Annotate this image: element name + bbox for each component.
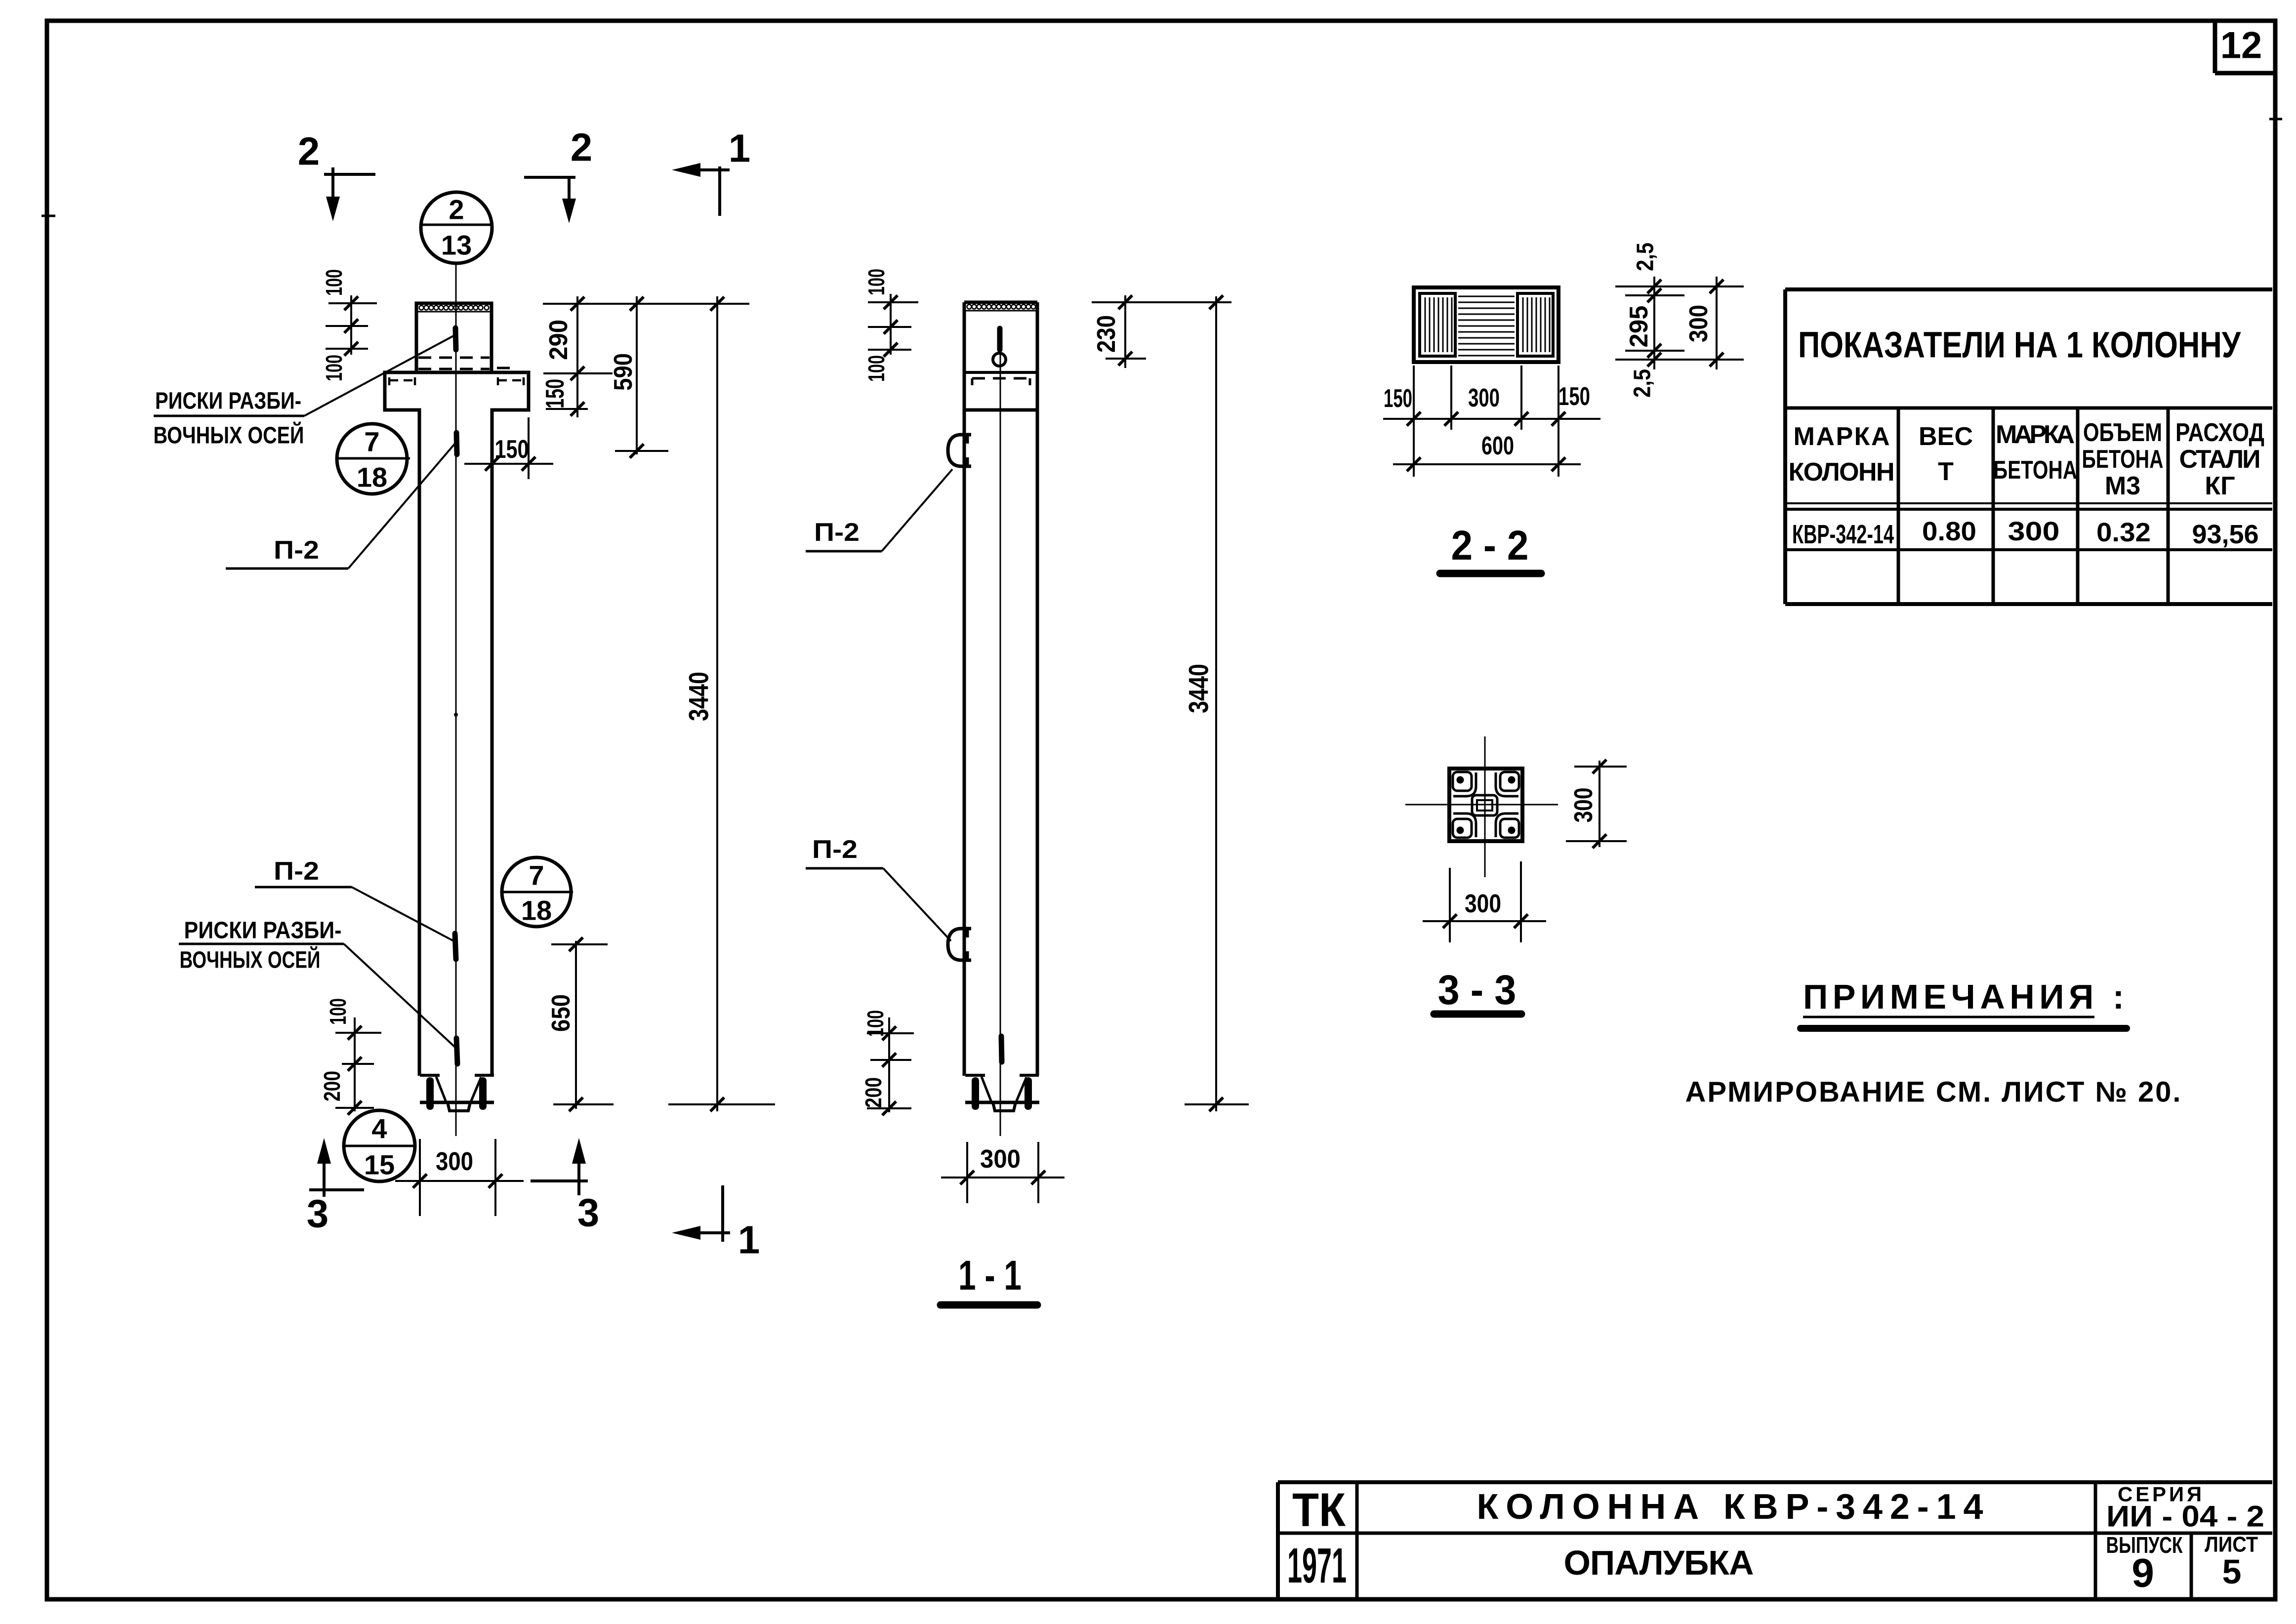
section mark 2 (left) bbox=[298, 129, 375, 222]
table header ВЕС Т bbox=[1919, 422, 1973, 486]
svg-text:650: 650 bbox=[547, 994, 575, 1032]
caption 2-2 bbox=[1440, 522, 1541, 573]
column 1 dim chain 100/100 top left bbox=[321, 269, 377, 381]
svg-text:12: 12 bbox=[2220, 25, 2262, 67]
leader label riski bottom bbox=[179, 918, 455, 1048]
section 3-3 corner anchor TL bbox=[1453, 772, 1476, 796]
caption 3-3 bbox=[1434, 967, 1521, 1014]
column 2 dim 300 bottom bbox=[941, 1142, 1065, 1203]
section 2-2 right block vertical hatch bbox=[1523, 297, 1550, 352]
svg-text:КГ: КГ bbox=[2205, 472, 2235, 500]
column 1 dim 300 bottom bbox=[395, 1139, 524, 1216]
column 2 leader label P-2 upper bbox=[806, 469, 952, 551]
section 3-3 corner anchor BR bbox=[1496, 813, 1519, 838]
section mark 2 (right) bbox=[524, 125, 592, 224]
svg-text:П-2: П-2 bbox=[274, 857, 319, 886]
column 1 top extension line right bbox=[543, 303, 749, 305]
table ПОКАЗАТЕЛИ НА 1 КОЛОННУ bbox=[1785, 289, 2272, 604]
caption 1-1 bbox=[941, 1252, 1037, 1305]
column 2 leader label P-2 lower bbox=[806, 835, 951, 941]
column 2 console level lines bbox=[964, 371, 1037, 374]
svg-text:РИСКИ РАЗБИ-: РИСКИ РАЗБИ- bbox=[155, 388, 301, 414]
section mark 1 (top) bbox=[672, 126, 750, 216]
svg-text:ПРИМЕЧАНИЯ :: ПРИМЕЧАНИЯ : bbox=[1803, 977, 2124, 1016]
column 1 console outline bbox=[385, 372, 529, 1076]
column 1 hat dotted strip bbox=[419, 306, 489, 310]
svg-text:ТК: ТК bbox=[1292, 1484, 1346, 1537]
section 3-3 corner anchor BL bbox=[1453, 813, 1476, 838]
svg-text:4: 4 bbox=[371, 1113, 387, 1144]
section 2-2 dim 600 bbox=[1393, 432, 1581, 471]
svg-text:ВЕС: ВЕС bbox=[1919, 422, 1973, 451]
svg-text:СТАЛИ: СТАЛИ bbox=[2179, 445, 2261, 474]
section 3-3 dim 300 bottom bbox=[1423, 861, 1546, 942]
svg-text:93,56: 93,56 bbox=[2192, 520, 2259, 549]
column 2 dotted strip bbox=[965, 305, 1036, 311]
svg-text:18: 18 bbox=[357, 462, 387, 493]
section 3-3 corner anchor TR bbox=[1496, 772, 1519, 796]
column 1 dim 590 bbox=[609, 296, 668, 458]
svg-text:18: 18 bbox=[521, 895, 552, 926]
column 1 riska mark in hat bbox=[455, 328, 456, 350]
svg-text:3: 3 bbox=[577, 1191, 600, 1235]
column 1 console dashed notch left bbox=[389, 377, 415, 385]
svg-text:ОБЪЕМ: ОБЪЕМ bbox=[2083, 418, 2162, 447]
marker circle 4/15 bbox=[344, 1110, 416, 1181]
svg-text:2: 2 bbox=[298, 129, 320, 173]
table header ОБЪЕМ БЕТОНА М3 bbox=[2082, 418, 2164, 500]
column 2 lifting loop circle bbox=[993, 353, 1006, 366]
svg-text:2: 2 bbox=[571, 125, 593, 169]
notes heading ПРИМЕЧАНИЯ bbox=[1801, 977, 2127, 1028]
column 1 bottom tip bbox=[420, 1075, 494, 1111]
section 2-2 dim 150/300/150 bbox=[1383, 365, 1600, 477]
svg-text:БЕТОНА: БЕТОНА bbox=[2082, 445, 2164, 474]
svg-text:2,5: 2,5 bbox=[1630, 369, 1656, 398]
svg-text:0.80: 0.80 bbox=[1922, 517, 1976, 546]
svg-text:1: 1 bbox=[729, 126, 751, 170]
section 2-2 dim 300 right bbox=[1684, 277, 1723, 369]
svg-text:КОЛОНН: КОЛОНН bbox=[1789, 458, 1895, 487]
svg-text:5: 5 bbox=[2222, 1552, 2242, 1591]
svg-text:7: 7 bbox=[529, 860, 544, 891]
table data row bbox=[1792, 517, 2259, 549]
svg-text:2: 2 bbox=[449, 194, 464, 225]
svg-text:КОЛОННА КВР-342-14: КОЛОННА КВР-342-14 bbox=[1477, 1487, 1983, 1527]
column 2 hidden dashed line bbox=[972, 378, 1030, 385]
svg-text:290: 290 bbox=[544, 320, 573, 360]
svg-text:БЕТОНА: БЕТОНА bbox=[1993, 456, 2077, 485]
column 2 top extension line right bbox=[1092, 301, 1231, 303]
table header РАСХОД СТАЛИ КГ bbox=[2175, 418, 2264, 500]
svg-text:100: 100 bbox=[863, 269, 889, 295]
column 2 dim 3440 bbox=[1183, 295, 1249, 1111]
svg-text:МАРКА: МАРКА bbox=[1996, 420, 2075, 449]
column 2 riska mark top bbox=[997, 328, 1003, 350]
svg-text:АРМИРОВАНИЕ СМ. ЛИСТ № 20.: АРМИРОВАНИЕ СМ. ЛИСТ № 20. bbox=[1685, 1076, 2181, 1108]
leader label P-2 top left bbox=[226, 444, 455, 568]
svg-text:3440: 3440 bbox=[1183, 664, 1214, 713]
svg-text:7: 7 bbox=[364, 426, 379, 457]
svg-text:ПОКАЗАТЕЛИ НА 1 КОЛОННУ: ПОКАЗАТЕЛИ НА 1 КОЛОННУ bbox=[1798, 325, 2241, 365]
svg-text:РАСХОД: РАСХОД bbox=[2175, 418, 2264, 447]
column 1 dim 3440 bbox=[668, 296, 775, 1111]
svg-text:100: 100 bbox=[321, 269, 347, 296]
leader label riski top bbox=[154, 336, 454, 449]
section 2-2 left block vertical hatch bbox=[1425, 297, 1452, 352]
svg-text:РИСКИ РАЗБИ-: РИСКИ РАЗБИ- bbox=[184, 918, 342, 944]
svg-text:150: 150 bbox=[1384, 384, 1412, 413]
column 1 dim 650 bbox=[547, 937, 614, 1111]
column 2 outline bbox=[964, 302, 1037, 1076]
svg-text:ВОЧНЫХ ОСЕЙ: ВОЧНЫХ ОСЕЙ bbox=[180, 946, 321, 974]
column 1 dim chain 290/150 bbox=[541, 296, 613, 417]
column 1 riska marks on shaft bbox=[456, 433, 457, 454]
svg-text:3 - 3: 3 - 3 bbox=[1438, 967, 1517, 1013]
column 1 hat outline bbox=[416, 303, 492, 372]
column 2 dim 230 bbox=[1092, 295, 1146, 368]
section 2-2 middle horizontal hatch bbox=[1458, 296, 1515, 356]
column 2 bottom tip bbox=[965, 1075, 1039, 1111]
column 2 hook P-2 upper bbox=[948, 435, 971, 466]
svg-text:150: 150 bbox=[495, 435, 529, 464]
leader label P-2 bottom left bbox=[255, 857, 454, 941]
column 2 axis line bbox=[1000, 326, 1001, 1136]
column 1 dim chain 100/200 bottom left bbox=[319, 998, 381, 1115]
svg-text:300: 300 bbox=[980, 1145, 1021, 1174]
marker circle 7/18 upper bbox=[337, 424, 410, 494]
page number box bbox=[2215, 21, 2275, 73]
svg-text:300: 300 bbox=[2008, 517, 2060, 546]
svg-text:100: 100 bbox=[321, 355, 347, 381]
svg-text:2 - 2: 2 - 2 bbox=[1451, 522, 1529, 568]
section mark 1 (bottom) bbox=[672, 1185, 760, 1262]
svg-text:300: 300 bbox=[1465, 890, 1501, 918]
svg-text:100: 100 bbox=[325, 998, 351, 1025]
svg-text:1 - 1: 1 - 1 bbox=[958, 1252, 1022, 1299]
svg-text:П-2: П-2 bbox=[274, 536, 319, 565]
column 1 hidden dashed lines in hat bbox=[418, 358, 510, 369]
marker circle 7/18 lower bbox=[502, 857, 573, 927]
column 1 axis line bbox=[455, 263, 457, 1136]
table header МАРКА БЕТОНА bbox=[1993, 420, 2077, 485]
svg-text:ОПАЛУБКА: ОПАЛУБКА bbox=[1564, 1543, 1754, 1582]
svg-text:П-2: П-2 bbox=[812, 835, 858, 864]
svg-text:1971: 1971 bbox=[1287, 1538, 1347, 1593]
section 3-3 center box bbox=[1472, 795, 1497, 815]
svg-text:2,5: 2,5 bbox=[1633, 243, 1659, 271]
svg-text:1: 1 bbox=[738, 1218, 760, 1262]
svg-text:ВОЧНЫХ ОСЕЙ: ВОЧНЫХ ОСЕЙ bbox=[154, 422, 304, 449]
table header МАРКА КОЛОНН bbox=[1789, 422, 1895, 487]
svg-text:КВР-342-14: КВР-342-14 bbox=[1792, 520, 1894, 549]
section 2-2 dim 2.5/295/2.5 bbox=[1615, 243, 1744, 398]
section 3-3 body bbox=[1405, 736, 1558, 877]
svg-text:150: 150 bbox=[541, 379, 570, 408]
svg-text:300: 300 bbox=[1569, 788, 1598, 823]
column 1 dim 150 under console bbox=[464, 417, 553, 479]
svg-text:200: 200 bbox=[319, 1071, 345, 1101]
svg-text:13: 13 bbox=[441, 230, 472, 261]
svg-text:0.32: 0.32 bbox=[2096, 518, 2151, 547]
svg-text:300: 300 bbox=[1684, 305, 1713, 342]
svg-text:Т: Т bbox=[1938, 457, 1954, 486]
svg-text:295: 295 bbox=[1625, 306, 1653, 348]
fold mark left border bbox=[41, 215, 55, 217]
svg-text:100: 100 bbox=[863, 355, 889, 382]
svg-text:ИИ - 04 - 2: ИИ - 04 - 2 bbox=[2106, 1500, 2264, 1533]
svg-text:200: 200 bbox=[861, 1077, 886, 1108]
svg-text:300: 300 bbox=[1468, 384, 1500, 412]
section mark 3 (right) bbox=[531, 1138, 599, 1235]
svg-text:М3: М3 bbox=[2105, 472, 2140, 500]
svg-text:230: 230 bbox=[1092, 315, 1121, 353]
svg-text:3: 3 bbox=[307, 1192, 329, 1236]
svg-text:590: 590 bbox=[609, 353, 638, 391]
svg-text:100: 100 bbox=[862, 1010, 888, 1037]
title block bbox=[1278, 1482, 2272, 1599]
svg-text:600: 600 bbox=[1481, 432, 1514, 460]
column 2 dim chain 100/200 bottom left bbox=[861, 1010, 914, 1115]
column 1 console dashed notch right bbox=[498, 377, 524, 385]
marker circle 2/13 bbox=[421, 192, 492, 263]
column 2 dim chain 100/100 top left bbox=[863, 269, 918, 382]
svg-text:15: 15 bbox=[364, 1149, 395, 1180]
section 2-2 body bbox=[1414, 287, 1558, 362]
svg-text:150: 150 bbox=[1558, 382, 1590, 411]
section 3-3 dim 300 right bbox=[1566, 760, 1627, 848]
svg-text:300: 300 bbox=[436, 1147, 473, 1176]
column 2 riska mark bottom bbox=[1001, 1036, 1002, 1062]
svg-text:3440: 3440 bbox=[683, 672, 714, 721]
svg-text:9: 9 bbox=[2132, 1551, 2154, 1596]
svg-text:П-2: П-2 bbox=[814, 518, 860, 547]
fold mark right border bbox=[2269, 118, 2282, 121]
svg-text:МАРКА: МАРКА bbox=[1794, 422, 1890, 451]
section mark 3 (left) bbox=[307, 1138, 364, 1236]
column 2 hook P-2 lower bbox=[948, 929, 971, 960]
